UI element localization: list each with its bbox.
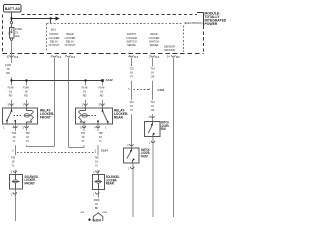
svg-text:REAR: REAR	[161, 127, 166, 131]
svg-text:RD: RD	[6, 72, 10, 75]
svg-text:REAR: REAR	[150, 32, 157, 36]
svg-text:5: 5	[80, 126, 82, 129]
svg-text:FUSE: FUSE	[15, 27, 22, 31]
svg-text:RD: RD	[83, 95, 87, 98]
svg-text:VT: VT	[81, 140, 85, 143]
svg-text:T12: T12	[129, 101, 134, 104]
svg-text:1: 1	[93, 193, 95, 196]
svg-text:40A: 40A	[15, 34, 20, 38]
svg-text:RD: RD	[100, 95, 104, 98]
svg-text:3: 3	[95, 149, 97, 152]
svg-text:LOCKER: LOCKER	[65, 36, 76, 40]
svg-text:RD: RD	[9, 95, 13, 98]
svg-text:BATT A0: BATT A0	[5, 7, 20, 11]
svg-text:5: 5	[23, 126, 25, 129]
svg-text:A142: A142	[106, 78, 114, 82]
svg-text:(ELECTRONIC): (ELECTRONIC)	[184, 21, 203, 25]
svg-text:VT: VT	[26, 140, 30, 143]
svg-text:REAR: REAR	[114, 116, 124, 120]
svg-text:OUTPUT: OUTPUT	[65, 43, 76, 47]
svg-text:T53: T53	[81, 132, 86, 135]
svg-text:C104: C104	[158, 88, 165, 92]
svg-text:LOCKER: LOCKER	[149, 36, 160, 40]
svg-text:3: 3	[128, 88, 130, 91]
svg-text:Z908: Z908	[102, 212, 108, 214]
svg-text:T12: T12	[129, 68, 134, 71]
svg-text:OR: OR	[151, 109, 155, 112]
svg-text:Z908: Z908	[94, 199, 100, 202]
svg-text:T52: T52	[25, 132, 30, 135]
svg-text:FRONT: FRONT	[50, 32, 59, 36]
svg-text:1: 1	[149, 88, 151, 91]
svg-text:T58: T58	[94, 157, 99, 160]
svg-text:F148: F148	[8, 87, 14, 90]
svg-text:2: 2	[127, 144, 129, 147]
svg-text:SWITCH: SWITCH	[149, 39, 159, 43]
svg-text:FRONT: FRONT	[25, 181, 35, 185]
svg-text:LOCKER: LOCKER	[49, 36, 60, 40]
svg-text:VT: VT	[130, 109, 134, 112]
svg-text:FRONT: FRONT	[127, 32, 136, 36]
svg-text:LOCKER: LOCKER	[126, 36, 137, 40]
svg-text:1: 1	[105, 126, 107, 129]
svg-text:RELAY: RELAY	[66, 39, 75, 43]
svg-text:10: 10	[6, 56, 9, 59]
svg-text:OUTPUT: OUTPUT	[49, 43, 60, 47]
svg-text:SENSE: SENSE	[150, 43, 159, 47]
svg-text:T14: T14	[150, 68, 155, 71]
svg-text:G304: G304	[93, 219, 101, 223]
svg-text:F148: F148	[99, 87, 105, 90]
svg-text:RELAY: RELAY	[50, 39, 59, 43]
svg-text:2: 2	[11, 193, 13, 196]
svg-text:1: 1	[149, 142, 151, 145]
svg-text:3: 3	[12, 149, 14, 152]
svg-text:SENSOR: SENSOR	[164, 44, 175, 48]
svg-text:REAR: REAR	[66, 32, 73, 36]
svg-text:POWER: POWER	[205, 22, 218, 26]
svg-text:4: 4	[94, 126, 96, 129]
svg-text:1: 1	[3, 126, 5, 129]
svg-text:1: 1	[128, 168, 130, 171]
svg-text:548: 548	[80, 212, 84, 214]
svg-text:C104: C104	[101, 148, 108, 152]
svg-text:FRONT: FRONT	[141, 154, 148, 158]
svg-text:T60: T60	[12, 132, 17, 135]
svg-text:23: 23	[15, 31, 18, 35]
svg-text:T14: T14	[150, 101, 155, 104]
svg-text:SENSE: SENSE	[127, 43, 136, 47]
svg-text:F148: F148	[82, 87, 88, 90]
svg-text:4: 4	[93, 171, 95, 174]
svg-text:F148: F148	[23, 87, 29, 90]
svg-text:24: 24	[167, 56, 170, 59]
svg-text:RD: RD	[24, 95, 28, 98]
svg-text:C1: C1	[57, 55, 61, 59]
svg-text:FRONT: FRONT	[40, 116, 51, 120]
svg-text:T58: T58	[98, 132, 103, 135]
svg-text:F148: F148	[5, 64, 11, 67]
svg-text:GROUND: GROUND	[164, 48, 176, 52]
svg-text:SWITCH: SWITCH	[126, 39, 136, 43]
svg-text:REAR: REAR	[106, 182, 115, 186]
svg-text:VT: VT	[130, 76, 134, 79]
svg-text:BK: BK	[95, 207, 99, 210]
svg-text:C1: C1	[155, 55, 159, 59]
svg-text:C1: C1	[176, 55, 180, 59]
svg-text:OR: OR	[151, 76, 155, 79]
svg-text:C1: C1	[71, 55, 75, 59]
svg-text:T60: T60	[11, 157, 16, 160]
svg-text:C1: C1	[134, 55, 138, 59]
svg-text:C4: C4	[14, 55, 18, 59]
svg-text:B(+): B(+)	[51, 28, 56, 32]
